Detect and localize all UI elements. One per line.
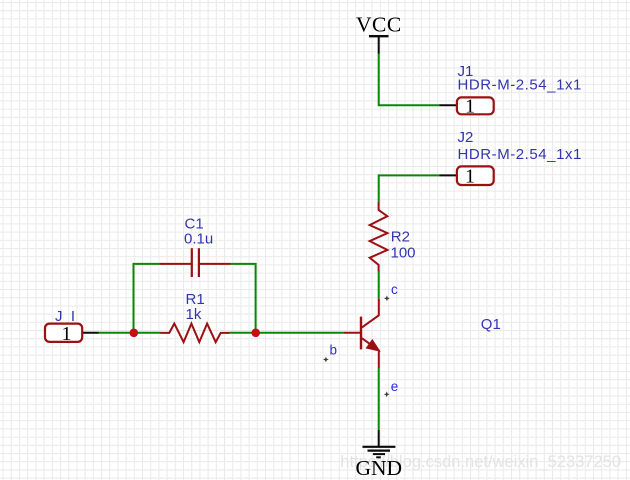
svg-text:HDR-M-2.54_1x1: HDR-M-2.54_1x1 xyxy=(458,77,582,94)
svg-text:GND: GND xyxy=(356,456,403,480)
svg-text:R2: R2 xyxy=(391,229,410,246)
svg-text:Q1: Q1 xyxy=(481,316,501,333)
svg-text:HDR-M-2.54_1x1: HDR-M-2.54_1x1 xyxy=(458,146,582,163)
svg-text:1: 1 xyxy=(62,323,72,345)
svg-text:100: 100 xyxy=(391,244,416,261)
svg-text:1: 1 xyxy=(465,95,475,117)
svg-text:c: c xyxy=(391,282,398,297)
svg-text:1: 1 xyxy=(465,165,475,187)
svg-text:1k: 1k xyxy=(186,306,202,323)
svg-text:J2: J2 xyxy=(458,129,474,146)
svg-text:e: e xyxy=(391,379,399,394)
svg-text:b: b xyxy=(330,342,338,357)
svg-text:0.1u: 0.1u xyxy=(184,231,213,248)
svg-text:VCC: VCC xyxy=(356,13,402,37)
